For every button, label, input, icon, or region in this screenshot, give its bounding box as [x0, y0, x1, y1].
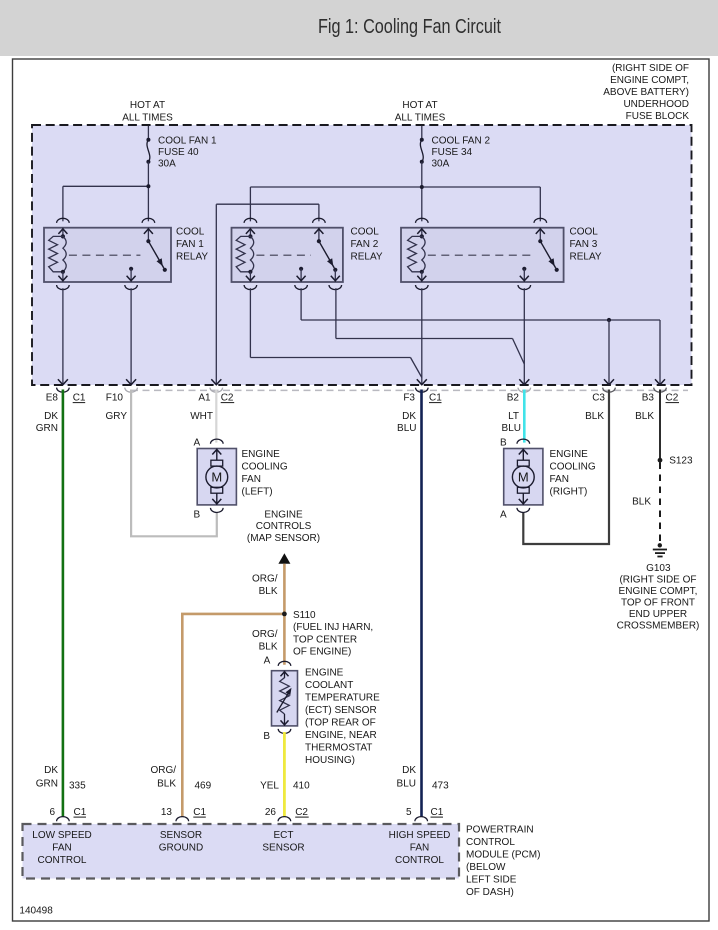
wire: relay K2 coil to F3 (diagonal join) — [249, 288, 251, 357]
svg-text:C1: C1 — [73, 393, 86, 404]
wire BLK dashed: S123 to G103 — [659, 463, 661, 544]
svg-text:HOT AT: HOT AT — [402, 100, 437, 111]
wire WHT: A1 to left fan A — [215, 390, 217, 443]
electric motor engine cooling fan right — [517, 439, 530, 444]
svg-text:C1: C1 — [193, 807, 206, 818]
junction C3 node — [607, 318, 611, 322]
svg-text:(LEFT): (LEFT) — [242, 487, 273, 498]
svg-text:FAN 2: FAN 2 — [351, 239, 379, 250]
fuse: COOL FAN 1 FUSE 40 30A — [147, 126, 149, 140]
svg-text:473: 473 — [432, 781, 449, 792]
svg-text:COOLING: COOLING — [550, 462, 596, 473]
svg-text:(RIGHT SIDE OF: (RIGHT SIDE OF — [619, 575, 696, 586]
svg-text:BLU: BLU — [502, 423, 521, 434]
svg-text:BLK: BLK — [259, 642, 278, 653]
svg-text:OF ENGINE): OF ENGINE) — [293, 647, 351, 658]
svg-text:HOT AT: HOT AT — [130, 100, 165, 111]
svg-text:MODULE (PCM): MODULE (PCM) — [466, 850, 540, 861]
PCM pin terminal x=421.2 — [415, 817, 428, 822]
svg-text:ENGINE COMPT,: ENGINE COMPT, — [619, 586, 698, 597]
svg-text:GRN: GRN — [36, 779, 58, 790]
svg-text:FAN 1: FAN 1 — [176, 239, 204, 250]
svg-text:335: 335 — [69, 781, 86, 792]
svg-text:GRN: GRN — [36, 423, 58, 434]
wire 335 DK GRN: E8 to PCM pin 6 — [62, 390, 65, 818]
wire: relay K3 coil to F3 — [421, 288, 423, 384]
relay K1 COOL FAN 1 internal dashed link — [69, 254, 140, 256]
svg-text:C1: C1 — [431, 807, 444, 818]
svg-text:WHT: WHT — [190, 411, 213, 422]
wire: relay K3 contact to B2 — [523, 288, 525, 384]
PCM pin terminal x=182.3 — [176, 817, 189, 822]
wire: relay K1 coil to E8 — [62, 288, 64, 384]
svg-text:COOL FAN 2: COOL FAN 2 — [432, 136, 491, 147]
svg-text:30A: 30A — [158, 159, 176, 170]
svg-text:UNDERHOOD: UNDERHOOD — [623, 99, 689, 110]
svg-text:CROSSMEMBER): CROSSMEMBER) — [617, 621, 700, 632]
relay K2 COOL FAN 2 fixed contact pin — [299, 267, 303, 271]
svg-text:13: 13 — [161, 807, 173, 818]
relay K1 COOL FAN 1 coil — [57, 218, 70, 223]
svg-text:HOUSING): HOUSING) — [305, 755, 355, 766]
svg-text:(TOP REAR OF: (TOP REAR OF — [305, 718, 376, 729]
svg-text:C2: C2 — [295, 807, 308, 818]
svg-text:DK: DK — [44, 411, 58, 422]
svg-text:C2: C2 — [666, 393, 679, 404]
svg-text:THERMOSTAT: THERMOSTAT — [305, 743, 372, 754]
svg-text:G103: G103 — [646, 563, 671, 574]
relay K3 COOL FAN 3 fixed contact pin — [522, 267, 526, 271]
svg-text:C3: C3 — [592, 393, 605, 404]
svg-text:CONTROL: CONTROL — [466, 837, 515, 848]
relay K1 COOL FAN 1 switch — [142, 218, 155, 223]
svg-text:BLK: BLK — [585, 411, 604, 422]
wire GRY: F10 to left fan B — [131, 390, 217, 537]
svg-text:M: M — [211, 470, 222, 485]
svg-text:ECT: ECT — [274, 830, 294, 841]
pin arrow and terminal at fuse block x=62.9 — [58, 379, 68, 385]
svg-text:ABOVE BATTERY): ABOVE BATTERY) — [603, 87, 689, 98]
svg-text:CONTROLS: CONTROLS — [256, 521, 312, 532]
splice S123 — [658, 458, 663, 463]
svg-text:BLK: BLK — [632, 497, 651, 508]
svg-text:ENGINE: ENGINE — [242, 449, 281, 460]
pin arrow and terminal at fuse block x=660 — [655, 379, 665, 385]
svg-text:A: A — [500, 510, 507, 521]
junction fuse 40 node — [146, 184, 150, 188]
pin arrow and terminal at fuse block x=216.3 — [211, 379, 221, 385]
wire: relay K2 contact to C3 and B3 — [300, 288, 302, 320]
svg-text:ENGINE: ENGINE — [305, 668, 344, 679]
svg-text:COOL FAN 1: COOL FAN 1 — [158, 136, 217, 147]
svg-text:30A: 30A — [432, 159, 450, 170]
svg-text:DK: DK — [44, 765, 58, 776]
svg-text:F3: F3 — [403, 393, 415, 404]
svg-text:BLU: BLU — [397, 779, 416, 790]
svg-text:FAN 3: FAN 3 — [570, 239, 598, 250]
svg-text:B: B — [194, 510, 201, 521]
header bar — [0, 0, 718, 56]
wire 469 ORG/BLK: MAP to S110 to ECT A — [283, 564, 286, 665]
wire BLK: C3 to right fan A — [523, 390, 609, 545]
svg-text:SENSOR: SENSOR — [160, 830, 202, 841]
svg-text:GROUND: GROUND — [159, 843, 203, 854]
relay K3 COOL FAN 3 coil — [416, 218, 429, 223]
svg-text:ORG/: ORG/ — [252, 574, 278, 585]
pin arrow and terminal at fuse block x=609 — [604, 379, 614, 385]
powertrain control module (PCM) dashed box — [23, 824, 460, 879]
svg-text:TEMPERATURE: TEMPERATURE — [305, 693, 380, 704]
svg-text:FUSE 34: FUSE 34 — [432, 147, 473, 158]
svg-text:DK: DK — [402, 765, 416, 776]
svg-text:BLK: BLK — [157, 779, 176, 790]
svg-text:A1: A1 — [198, 393, 211, 404]
svg-text:POWERTRAIN: POWERTRAIN — [466, 825, 534, 836]
svg-text:YEL: YEL — [260, 781, 279, 792]
thermistor element — [280, 678, 290, 714]
wire 410 YEL: ECT B to PCM pin 26 — [283, 732, 286, 817]
svg-text:A: A — [264, 656, 271, 667]
pin arrow and terminal at fuse block x=524.3 — [519, 379, 529, 385]
svg-text:FAN: FAN — [52, 843, 71, 854]
svg-text:FUSE 40: FUSE 40 — [158, 147, 199, 158]
relay K2 COOL FAN 2 switch output pin — [334, 270, 336, 282]
ground G103 — [658, 543, 662, 547]
wire: fuse 34 to relay K2 coil, relay K3 coil and switch — [421, 162, 423, 222]
svg-text:COOL: COOL — [176, 227, 205, 238]
svg-text:COOLING: COOLING — [242, 462, 288, 473]
svg-text:ENGINE COMPT,: ENGINE COMPT, — [610, 75, 689, 86]
svg-text:LEFT SIDE: LEFT SIDE — [466, 875, 517, 886]
svg-text:140498: 140498 — [19, 906, 53, 917]
svg-text:FAN: FAN — [550, 474, 569, 485]
svg-text:COOLANT: COOLANT — [305, 680, 353, 691]
wire LT BLU: B2 to right fan B — [523, 390, 526, 443]
relay K3 COOL FAN 3 switch — [534, 218, 547, 223]
relay K1 COOL FAN 1 fixed contact pin — [129, 267, 133, 271]
relay K3 COOL FAN 3 box — [401, 228, 564, 282]
svg-text:E8: E8 — [46, 393, 59, 404]
svg-text:(RIGHT): (RIGHT) — [550, 487, 588, 498]
electric motor engine cooling fan left — [211, 439, 224, 444]
svg-text:(FUEL INJ HARN,: (FUEL INJ HARN, — [293, 622, 373, 633]
svg-text:CONTROL: CONTROL — [395, 855, 444, 866]
svg-text:C2: C2 — [221, 393, 234, 404]
relay K2 COOL FAN 2 box — [232, 228, 343, 282]
svg-text:COOL: COOL — [351, 227, 380, 238]
svg-text:B: B — [500, 438, 507, 449]
relay K2 COOL FAN 2 coil — [244, 218, 257, 223]
splice S110 — [282, 612, 287, 617]
svg-text:(BELOW: (BELOW — [466, 862, 506, 873]
relay K1 COOL FAN 1 box — [44, 228, 171, 282]
svg-text:ORG/: ORG/ — [150, 765, 176, 776]
svg-text:C1: C1 — [429, 393, 442, 404]
svg-text:ENGINE, NEAR: ENGINE, NEAR — [305, 730, 377, 741]
pin arrow and terminal at fuse block x=131.1 — [126, 379, 136, 385]
svg-text:(ECT) SENSOR: (ECT) SENSOR — [305, 705, 377, 716]
svg-text:HIGH SPEED: HIGH SPEED — [389, 830, 451, 841]
svg-text:FAN: FAN — [410, 843, 429, 854]
svg-text:OF DASH): OF DASH) — [466, 887, 514, 898]
svg-text:BLU: BLU — [397, 423, 416, 434]
svg-text:RELAY: RELAY — [176, 252, 208, 263]
junction fuse 34 node — [420, 185, 424, 189]
svg-text:TOP OF FRONT: TOP OF FRONT — [621, 598, 695, 609]
svg-text:ENGINE: ENGINE — [550, 449, 589, 460]
svg-text:S110: S110 — [293, 610, 316, 621]
wire BLK: B3 to S123 — [659, 390, 661, 460]
relay K2 COOL FAN 2 switch — [313, 218, 326, 223]
underhood fuse block (dashed box) — [32, 125, 692, 385]
svg-text:RELAY: RELAY — [570, 252, 602, 263]
svg-text:DK: DK — [402, 411, 416, 422]
svg-text:BLK: BLK — [259, 586, 278, 597]
svg-text:B3: B3 — [642, 393, 655, 404]
svg-text:SENSOR: SENSOR — [262, 843, 304, 854]
relay K2 COOL FAN 2 internal dashed link — [256, 254, 311, 256]
svg-text:A: A — [194, 438, 201, 449]
svg-text:26: 26 — [265, 807, 277, 818]
svg-text:BLK: BLK — [635, 411, 654, 422]
connector C2 grey boundary — [131, 389, 688, 391]
wire: relay K1 contact to F10 — [130, 288, 132, 384]
svg-text:469: 469 — [195, 781, 212, 792]
PCM pin terminal x=62.9 — [57, 817, 70, 822]
svg-text:ALL TIMES: ALL TIMES — [395, 113, 446, 124]
svg-text:CONTROL: CONTROL — [38, 855, 87, 866]
svg-text:END UPPER: END UPPER — [629, 609, 687, 620]
svg-text:RELAY: RELAY — [351, 252, 383, 263]
wire 473 DK BLU: F3 to PCM pin 5 — [420, 390, 423, 818]
relay K3 COOL FAN 3 internal dashed link — [428, 254, 533, 256]
svg-text:B2: B2 — [507, 393, 520, 404]
svg-text:LT: LT — [508, 411, 519, 422]
svg-text:(RIGHT SIDE OF: (RIGHT SIDE OF — [612, 63, 689, 74]
pin arrow and terminal at fuse block x=421.8 — [417, 379, 427, 385]
svg-text:ALL TIMES: ALL TIMES — [122, 113, 173, 124]
svg-text:ENGINE: ENGINE — [264, 510, 303, 521]
wire: A1 to relay K2 switch common — [318, 204, 320, 221]
svg-text:(MAP SENSOR): (MAP SENSOR) — [247, 533, 320, 544]
svg-text:6: 6 — [49, 807, 55, 818]
svg-text:FAN: FAN — [242, 474, 261, 485]
svg-text:ORG/: ORG/ — [252, 629, 278, 640]
svg-text:F10: F10 — [106, 393, 124, 404]
wire ORG/BLK branch: S110 to PCM pin 13 — [182, 614, 284, 817]
svg-text:M: M — [518, 470, 529, 485]
svg-text:TOP CENTER: TOP CENTER — [293, 634, 357, 645]
wire: relay K2 switch output to B2 (diagonal join) — [335, 288, 337, 338]
svg-text:LOW SPEED: LOW SPEED — [32, 830, 91, 841]
wire: fuse 40 to relay K1 coil and switch — [147, 162, 149, 222]
fuse: COOL FAN 2 FUSE 34 30A — [421, 126, 423, 140]
svg-text:GRY: GRY — [106, 411, 128, 422]
svg-text:B: B — [263, 731, 270, 742]
svg-text:C1: C1 — [74, 807, 87, 818]
svg-text:COOL: COOL — [570, 227, 599, 238]
svg-text:5: 5 — [406, 807, 412, 818]
svg-text:FUSE BLOCK: FUSE BLOCK — [626, 111, 690, 122]
svg-text:410: 410 — [293, 781, 310, 792]
svg-text:Fig 1: Cooling Fan Circuit: Fig 1: Cooling Fan Circuit — [318, 16, 501, 38]
PCM pin terminal x=284.4 — [278, 817, 291, 822]
svg-text:S123: S123 — [669, 456, 693, 467]
